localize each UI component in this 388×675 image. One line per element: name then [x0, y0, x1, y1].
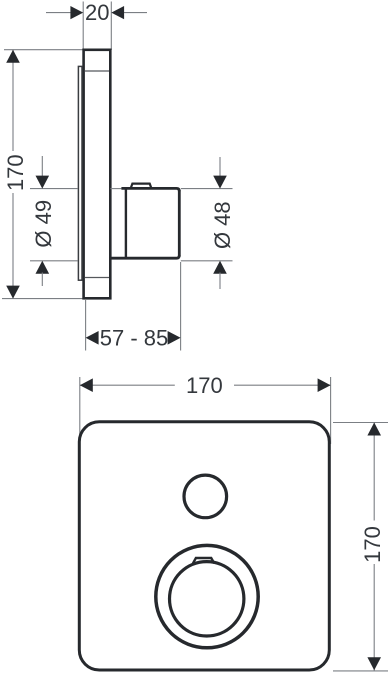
dim 20 ext line right — [110, 2, 112, 51]
svg-text:170: 170 — [3, 154, 28, 191]
dim dia49 arrow down — [36, 176, 50, 189]
dim 20 arrow right — [111, 6, 124, 19]
dim 170 front top right ext line — [330, 377, 332, 444]
dim 20 ext line left — [82, 2, 84, 51]
dim dia49 top ext line — [30, 188, 78, 190]
svg-text:Ø 49: Ø 49 — [31, 200, 56, 248]
knob side front face — [178, 190, 181, 257]
plate side thin profile — [78, 66, 82, 280]
dim 170 front right top ext line — [333, 422, 388, 424]
dim dia49 bottom ext line — [30, 260, 78, 262]
dim dia49 line top tail — [41, 156, 43, 177]
knob side marker tab — [131, 184, 152, 188]
knob side connector line — [110, 188, 121, 190]
dim dia48 line top tail — [219, 157, 221, 177]
dim 57-85 arrow right — [168, 331, 181, 345]
dim 57-85 left ext line — [85, 300, 87, 351]
svg-text:170: 170 — [186, 373, 223, 398]
svg-text:Ø 48: Ø 48 — [210, 201, 235, 249]
dim 170 front right bottom ext line — [333, 670, 388, 672]
svg-text:57 - 85: 57 - 85 — [100, 325, 169, 350]
dim 170 front top line right — [234, 384, 331, 386]
dim 20 tail left — [46, 12, 71, 14]
dim dia48 arrow down — [213, 176, 227, 189]
button circle — [184, 475, 227, 518]
plate side lower line — [85, 277, 109, 279]
dim 20 tail right — [124, 12, 148, 14]
knob inner circle — [170, 562, 244, 636]
dim dia49 arrow up — [36, 261, 50, 274]
dim dia48 arrow up — [213, 261, 227, 274]
knob side bottom edge — [110, 255, 180, 258]
dim dia49 line bottom tail — [41, 273, 43, 287]
dim 170 side bottom ext line (wall) — [2, 298, 85, 300]
svg-text:20: 20 — [85, 0, 109, 25]
dim 170 side top ext line — [4, 49, 84, 51]
dim 20 arrow left — [70, 6, 83, 19]
knob marker tab — [193, 558, 214, 563]
dim 170 front right line upper — [373, 423, 375, 521]
knob side back grip line — [125, 190, 127, 258]
dim dia48 bottom ext line — [181, 260, 233, 262]
svg-text:170: 170 — [360, 526, 385, 563]
dim 170 front right arrow up — [367, 423, 381, 436]
dim 170 front right line lower — [373, 564, 375, 671]
plate front view — [79, 422, 329, 670]
dim dia48 line bottom tail — [219, 273, 221, 290]
dim 170 front top arrow left — [80, 378, 93, 392]
dim 170 side line lower — [12, 193, 14, 299]
plate side view body — [84, 50, 111, 298]
dim 170 side arrow down — [6, 286, 20, 299]
plate side cap line — [85, 70, 109, 72]
dim 170 side arrow up — [6, 50, 20, 63]
knob side top edge — [121, 188, 179, 191]
dim 57-85 right ext line — [180, 262, 182, 351]
knob outer circle — [156, 545, 258, 647]
dim 170 front right arrow down — [367, 657, 381, 670]
dim 170 front top left ext line — [79, 377, 81, 440]
dim dia48 top ext line — [181, 188, 233, 190]
dim 170 side line upper — [12, 50, 14, 151]
dim 57-85 arrow left — [86, 331, 99, 345]
dim 170 front top arrow right — [318, 378, 331, 392]
dim 170 front top line left — [80, 384, 175, 386]
